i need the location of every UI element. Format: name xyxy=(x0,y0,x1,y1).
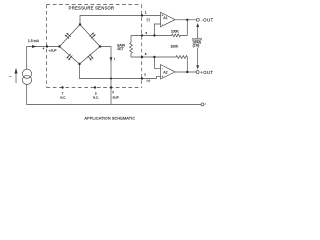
svg-text:8: 8 xyxy=(145,52,147,56)
wire: +SUP from current source to bridge left node xyxy=(27,47,60,70)
svg-text:SET: SET xyxy=(117,47,123,51)
current direction arrow on -SUP drop xyxy=(110,57,113,61)
svg-text:PRESSURE SENSOR: PRESSURE SENSOR xyxy=(69,6,115,11)
svg-text:100K: 100K xyxy=(170,44,179,48)
junction A1 inv xyxy=(153,34,155,36)
bridge arm bottom-left xyxy=(60,47,80,65)
wire: bridge top node to A1 + input (top rail) xyxy=(80,16,161,25)
svg-text:1.5 mA: 1.5 mA xyxy=(28,39,40,43)
terminal COM xyxy=(201,103,204,106)
resistor 100K (A2 feedback) xyxy=(131,56,187,72)
bridge arm top-left xyxy=(60,25,81,47)
junction A2 inv xyxy=(153,56,155,58)
span arrow down (above +OUT) xyxy=(197,48,199,66)
wire: bridge bottom node to A2 + input xyxy=(80,64,161,79)
terminal +OUT xyxy=(196,71,199,74)
wire: A2 output xyxy=(175,71,196,73)
svg-text:2: 2 xyxy=(112,90,114,94)
pin 2 -SUP xyxy=(110,86,112,88)
piezoresistor marks UR xyxy=(90,32,96,38)
svg-text:-: - xyxy=(162,22,163,26)
junction dots xyxy=(46,14,189,88)
bridge arm top-right xyxy=(80,25,100,47)
sensor dashed box xyxy=(47,5,142,88)
terminal -OUT xyxy=(196,18,199,21)
svg-text:APPLICATION SCHEMATIC: APPLICATION SCHEMATIC xyxy=(84,116,135,121)
wire: bridge right node down through -SUP pin to ground rail xyxy=(27,47,111,105)
bridge arm bottom-right xyxy=(80,47,101,65)
piezoresistor marks LR xyxy=(88,54,94,60)
svg-text:4: 4 xyxy=(43,47,45,51)
svg-text:-SUP: -SUP xyxy=(112,96,119,100)
pin 4 +SUP xyxy=(46,45,48,47)
node: bridge left xyxy=(58,45,60,47)
junction A2 out xyxy=(186,71,188,73)
svg-text:1: 1 xyxy=(145,10,147,14)
wire: A1 inverting input from feedback node xyxy=(154,24,160,35)
svg-text:+OUT: +OUT xyxy=(200,70,213,75)
op-amp A2 xyxy=(161,65,176,80)
node: bridge right xyxy=(99,45,101,47)
svg-text:-: - xyxy=(162,67,163,71)
pin 7 N.C. xyxy=(61,86,63,88)
node: bridge bottom xyxy=(78,63,80,65)
svg-text:100K: 100K xyxy=(171,29,180,33)
junction A1 out xyxy=(186,19,188,21)
pin 1 (-) xyxy=(141,14,143,16)
svg-text:(+): (+) xyxy=(146,79,150,83)
span arrow up (under -OUT) xyxy=(197,27,199,39)
svg-text:3: 3 xyxy=(144,72,146,76)
svg-text:N.C.: N.C. xyxy=(60,95,66,99)
svg-text:+SUP: +SUP xyxy=(49,48,57,52)
pin 8 gain xyxy=(141,56,143,58)
svg-text:-OUT: -OUT xyxy=(201,17,213,22)
current source circles xyxy=(22,69,31,78)
wire: A1 output xyxy=(175,19,196,21)
current direction arrow on +SUP wire xyxy=(32,45,36,48)
op-amp A1 xyxy=(161,12,176,26)
tiny tick near -SUP drop arrow xyxy=(113,58,115,60)
junction -SUP crossing xyxy=(110,78,112,80)
svg-text:6: 6 xyxy=(145,31,147,35)
pin 3 (+) xyxy=(141,77,143,79)
pin 5 N.C. xyxy=(94,86,96,88)
resistor 100K (A1 feedback) xyxy=(131,20,187,37)
resistor GAIN SET xyxy=(130,35,133,57)
wire: A2 inverting input from feedback node xyxy=(154,57,160,68)
node: bridge top xyxy=(79,23,81,25)
svg-text:(1%): (1%) xyxy=(193,44,200,48)
svg-text:(-): (-) xyxy=(147,18,150,22)
wire: common rail to COM terminal xyxy=(111,103,201,105)
piezoresistor marks LL xyxy=(67,54,73,60)
current source direction arrow xyxy=(15,72,17,83)
piezoresistor marks UL xyxy=(65,33,71,39)
svg-text:+: + xyxy=(161,14,163,18)
svg-text:A1: A1 xyxy=(163,16,167,20)
pin 6 gain xyxy=(141,34,143,36)
svg-text:N.C.: N.C. xyxy=(93,95,99,99)
svg-text:+: + xyxy=(161,75,163,79)
svg-text:A2: A2 xyxy=(163,70,167,74)
